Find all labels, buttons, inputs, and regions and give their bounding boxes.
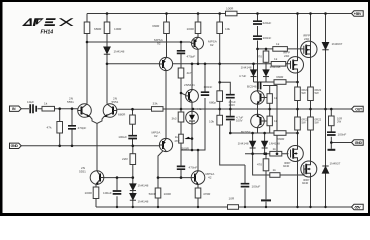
resistor 100R rail top inline bbox=[226, 11, 238, 16]
resistor 1k gate B bbox=[271, 62, 286, 67]
svg-text:470R: 470R bbox=[203, 192, 211, 196]
terminals bbox=[10, 11, 364, 210]
wire VAS1 column bbox=[165, 14, 168, 139]
wire 470p drop bbox=[71, 109, 73, 146]
resistor 470 upper bbox=[263, 51, 269, 62]
ground bars bbox=[261, 150, 335, 201]
wire mpsa42 collector bbox=[197, 150, 199, 171]
resistor 100R q2 load bbox=[104, 22, 110, 34]
terminal GND zobel bbox=[352, 140, 364, 145]
wire 47k drop bbox=[59, 109, 61, 146]
capacitors bbox=[30, 21, 335, 194]
svg-text:470pF: 470pF bbox=[78, 126, 87, 130]
wire mid rail cap column bbox=[257, 14, 259, 91]
resistor 0R22 A bbox=[308, 87, 314, 101]
svg-text:1k: 1k bbox=[44, 102, 48, 106]
svg-text:BC546: BC546 bbox=[247, 85, 257, 89]
svg-text:2N5401: 2N5401 bbox=[184, 83, 195, 87]
svg-text:GND: GND bbox=[11, 144, 19, 148]
svg-text:470pF: 470pF bbox=[187, 55, 196, 59]
svg-text:100V: 100V bbox=[229, 103, 236, 107]
wire input line bbox=[21, 108, 78, 110]
svg-text:1N4937: 1N4937 bbox=[330, 162, 341, 166]
wire mosfet B2 bbox=[297, 109, 299, 207]
wire y133 lower 330R bbox=[230, 132, 297, 134]
resistor 0R22 B bbox=[295, 87, 301, 101]
svg-text:1k: 1k bbox=[274, 57, 278, 61]
transistor VAS1 MPSA92 bbox=[159, 57, 172, 70]
svg-text:FH14: FH14 bbox=[41, 30, 54, 36]
resistor 100R vas2 bbox=[195, 22, 201, 34]
svg-text:9240: 9240 bbox=[283, 164, 290, 168]
mosfet IRFP240 B bbox=[287, 57, 303, 73]
logo APEX bbox=[22, 18, 74, 26]
wire diode top col bbox=[325, 14, 327, 110]
svg-text:1N4148: 1N4148 bbox=[138, 200, 149, 204]
svg-text:-55V: -55V bbox=[354, 206, 361, 210]
svg-text:100R: 100R bbox=[164, 192, 172, 196]
svg-text:10R: 10R bbox=[229, 197, 235, 201]
wire emitters Q1 Q2 bbox=[90, 116, 105, 171]
capacitor 470pF bbox=[68, 126, 76, 129]
diode 1N4937 bottom bbox=[322, 166, 328, 173]
svg-text:330R: 330R bbox=[276, 75, 284, 79]
svg-text:500R: 500R bbox=[182, 146, 190, 150]
svg-text:5W: 5W bbox=[302, 121, 307, 125]
svg-text:5551: 5551 bbox=[67, 100, 74, 104]
wire bottom -55V rail bbox=[96, 206, 352, 208]
diode 1N4148 lower b bbox=[262, 141, 268, 148]
svg-text:100nF: 100nF bbox=[204, 85, 213, 89]
svg-text:OUT: OUT bbox=[355, 108, 363, 112]
svg-text:33k: 33k bbox=[153, 102, 158, 106]
svg-text:680R: 680R bbox=[118, 113, 126, 117]
resistor 10R zobel bbox=[329, 116, 335, 126]
resistor 470 lower bbox=[263, 159, 269, 171]
wire fb divider column bbox=[132, 109, 134, 146]
transistor BC557 bbox=[251, 114, 265, 128]
svg-text:42: 42 bbox=[208, 176, 212, 180]
diodes bbox=[104, 42, 329, 200]
transistor Q3 2N5551 cs bbox=[90, 171, 104, 185]
svg-text:9240: 9240 bbox=[302, 181, 309, 185]
wire y63.8 right bbox=[173, 63, 291, 65]
resistor 3k3 bbox=[178, 112, 184, 122]
resistor 1k gate A2 bbox=[270, 173, 280, 178]
svg-text:3k3: 3k3 bbox=[172, 117, 177, 121]
svg-text:10k: 10k bbox=[209, 120, 214, 124]
terminal OUT bbox=[352, 106, 364, 111]
svg-text:100uF: 100uF bbox=[103, 191, 112, 195]
wire 10k col 219.7 bbox=[220, 14, 245, 208]
svg-text:1N4148: 1N4148 bbox=[269, 142, 280, 146]
svg-text:26V: 26V bbox=[175, 139, 180, 143]
svg-text:BC557: BC557 bbox=[241, 130, 251, 134]
svg-text:560R: 560R bbox=[149, 192, 157, 196]
resistor 10k top bbox=[217, 22, 223, 34]
wire 470 diode col 266 bbox=[265, 49, 267, 82]
capacitor cap5 q3 bbox=[113, 191, 122, 194]
svg-text:1N4148: 1N4148 bbox=[241, 66, 252, 70]
mosfet IRFP240 A bbox=[301, 41, 317, 57]
wire q3 emitter bbox=[95, 185, 97, 208]
wire mosfet A2 bbox=[310, 109, 312, 207]
diode 1N4148 upper a bbox=[251, 70, 257, 77]
led bias bbox=[186, 111, 199, 124]
wire y150 bias bottom bbox=[181, 149, 206, 151]
wire vbe out 277 bbox=[263, 86, 277, 154]
wire lower diodes bbox=[253, 133, 265, 154]
diode 1N4148 q2 clamp bbox=[104, 47, 110, 54]
resistor trimmer body bbox=[179, 134, 184, 143]
svg-text:100nF: 100nF bbox=[263, 36, 272, 40]
wire zobel bbox=[331, 109, 352, 149]
svg-text:1k: 1k bbox=[274, 96, 278, 100]
svg-text:1k: 1k bbox=[274, 119, 278, 123]
svg-text:10uF: 10uF bbox=[27, 100, 34, 104]
transistor BC546 bbox=[251, 91, 265, 105]
svg-text:5551: 5551 bbox=[79, 170, 86, 174]
wire gate A y48.9 bbox=[258, 48, 305, 50]
svg-text:2W: 2W bbox=[337, 120, 342, 124]
capacitor 4.7uF lower bbox=[226, 117, 235, 120]
resistor 33k fb bbox=[152, 107, 164, 112]
svg-text:5551: 5551 bbox=[112, 100, 119, 104]
capacitor bias mid 100n bbox=[177, 166, 185, 169]
transistor Q1 2N5551 bbox=[78, 104, 92, 118]
resistor 1k RA bbox=[267, 94, 272, 104]
wire mosfet A drain/source bbox=[310, 14, 312, 110]
wire cap5 drop bbox=[116, 178, 118, 207]
wire y82 source B bbox=[254, 81, 298, 83]
svg-text:1k: 1k bbox=[273, 147, 277, 151]
wire VAS base y42 bbox=[87, 42, 192, 43]
capacitor 100nF zobel bbox=[327, 132, 336, 135]
resistor 0R22 A2 bbox=[308, 117, 314, 130]
svg-text:1k: 1k bbox=[273, 168, 277, 172]
resistors vertical bbox=[57, 22, 334, 199]
svg-text:100R: 100R bbox=[187, 27, 195, 31]
resistor 0R22 B2 bbox=[295, 117, 301, 130]
wire mpsa92b emitter to 158 bbox=[158, 151, 163, 207]
transistor VAS2 MPSA92 bbox=[192, 37, 204, 49]
capacitor 10uF input bbox=[30, 104, 36, 113]
resistor 470R mpsa42 bbox=[195, 188, 201, 198]
svg-text:1N4148: 1N4148 bbox=[114, 50, 125, 54]
svg-text:1N4148: 1N4148 bbox=[238, 142, 249, 146]
mosfet IRFP9240 A2 bbox=[301, 161, 317, 177]
svg-text:5W: 5W bbox=[302, 91, 307, 95]
wire q3 base bbox=[104, 177, 133, 179]
wire 2n5401 base bbox=[181, 93, 186, 95]
capacitor 4.7uF horizontal vbe bbox=[258, 82, 261, 90]
resistor 10R rail bottom inline bbox=[228, 205, 239, 210]
terminal -55V bbox=[352, 204, 364, 209]
wire gate A2 y175 bbox=[253, 154, 306, 175]
wire bc base stubs bbox=[265, 98, 270, 122]
svg-text:220uF: 220uF bbox=[263, 21, 272, 25]
ground bar bias bbox=[261, 199, 271, 201]
wires main bbox=[21, 14, 352, 208]
resistor 330R lower bbox=[274, 131, 286, 136]
svg-text:330R: 330R bbox=[277, 137, 285, 141]
resistor 47k input bbox=[57, 122, 63, 134]
resistor 330R vas1 bbox=[164, 22, 170, 34]
wire RA RB column bbox=[269, 86, 271, 134]
wire 470 lower col bbox=[265, 154, 267, 207]
mosfet IRFP9240 B2 bbox=[287, 146, 303, 162]
wire 2n5401 collector bbox=[191, 64, 193, 90]
capacitor comp 181 bbox=[177, 51, 185, 54]
transistor MPSA42 bbox=[191, 171, 205, 185]
svg-text:240: 240 bbox=[284, 54, 289, 58]
wire out rail y109 bbox=[163, 108, 352, 110]
capacitor 4.7uF upper bbox=[226, 95, 235, 98]
svg-text:92: 92 bbox=[157, 42, 161, 46]
svg-text:330R: 330R bbox=[152, 24, 160, 28]
resistor 1k input bbox=[42, 106, 55, 111]
wire y177.6 mpsa42 base bbox=[158, 177, 191, 179]
trimmer arrow bbox=[186, 137, 190, 138]
resistors horizontal bbox=[42, 11, 287, 209]
diode 1N4148 upper b bbox=[263, 70, 269, 77]
svg-text:100R: 100R bbox=[114, 27, 122, 31]
wire Q2 collector column bbox=[106, 14, 108, 104]
transistors bbox=[78, 37, 265, 185]
resistor 1k gate A bbox=[273, 47, 288, 52]
wire cap2 stub bbox=[229, 109, 231, 133]
capacitor 100uF mid bottom bbox=[241, 184, 250, 187]
svg-text:1k: 1k bbox=[276, 42, 280, 46]
svg-text:100V: 100V bbox=[236, 119, 243, 123]
svg-text:100uF: 100uF bbox=[118, 135, 127, 139]
svg-text:1N4148: 1N4148 bbox=[138, 184, 149, 188]
wire diode bottom col bbox=[325, 109, 327, 207]
wire trimmer wiper bbox=[186, 138, 193, 140]
wire 22R diode column bbox=[132, 146, 134, 207]
wire Q1 collector column bbox=[86, 14, 88, 104]
transistor Q2 2N5551 bbox=[103, 104, 117, 118]
wire gate B2 y153.7 bbox=[245, 153, 289, 155]
wire cap1 stub bbox=[220, 82, 231, 109]
svg-text:GND: GND bbox=[355, 141, 363, 145]
resistor 680R fb bbox=[130, 115, 136, 124]
svg-text:100R: 100R bbox=[226, 7, 234, 11]
svg-text:1N4148: 1N4148 bbox=[270, 65, 281, 69]
svg-text:47k: 47k bbox=[47, 126, 52, 130]
terminal GND left bbox=[10, 143, 22, 148]
wire diode col 253.5 bbox=[253, 64, 255, 82]
svg-text:100R: 100R bbox=[85, 191, 93, 195]
resistor 10k mid bbox=[217, 91, 223, 102]
wire top +55V rail bbox=[87, 13, 352, 15]
svg-text:+55V: +55V bbox=[354, 12, 362, 16]
resistor 680R bbox=[84, 22, 90, 34]
svg-text:100uF: 100uF bbox=[252, 185, 261, 189]
wire bc546 pair column bbox=[257, 104, 259, 133]
svg-text:5W: 5W bbox=[315, 91, 320, 95]
wire mpsa42 emitter col bbox=[197, 185, 199, 207]
diode 1N4937 top bbox=[322, 42, 328, 49]
capacitor rail 220uF bbox=[253, 21, 262, 24]
svg-text:22R: 22R bbox=[122, 157, 128, 161]
svg-text:680p: 680p bbox=[209, 101, 216, 105]
resistor 560R bbox=[155, 188, 161, 198]
svg-text:470nF: 470nF bbox=[189, 166, 198, 170]
resistor 1k RB bbox=[267, 116, 272, 126]
transistor 2N5401 bbox=[186, 90, 199, 103]
transistor MPSA92 b bbox=[159, 138, 172, 151]
svg-text:240: 240 bbox=[304, 37, 309, 41]
svg-text:470: 470 bbox=[257, 163, 262, 167]
terminal IN bbox=[10, 106, 22, 111]
svg-text:92: 92 bbox=[210, 43, 214, 47]
wire mosfet B drain/source bbox=[297, 14, 299, 110]
wire Q2 base feedback node bbox=[117, 108, 152, 110]
resistor 10k mid b bbox=[217, 115, 223, 125]
svg-text:470: 470 bbox=[257, 55, 262, 59]
capacitor rail 100nF bbox=[253, 36, 262, 39]
terminal +55V bbox=[352, 11, 364, 16]
capacitor 100pF 205 bbox=[201, 92, 209, 95]
wire gnd line bbox=[21, 145, 160, 147]
mosfets bbox=[287, 41, 317, 177]
wire VAS2 column bbox=[197, 14, 199, 64]
svg-text:10k: 10k bbox=[225, 27, 230, 31]
resistor 330R upper bbox=[274, 80, 286, 85]
diode 1N4148 q3 a bbox=[130, 184, 136, 191]
capacitor 100uF fb bbox=[128, 136, 137, 139]
svg-text:680R: 680R bbox=[94, 27, 102, 31]
wire 205 column bbox=[204, 64, 206, 150]
wire y63.8 left bbox=[107, 63, 160, 65]
diode 1N4148 lower a bbox=[250, 141, 256, 148]
svg-text:4.7uF: 4.7uF bbox=[239, 74, 246, 78]
wire comp column 181 bbox=[180, 42, 182, 178]
svg-text:HL: HL bbox=[198, 107, 202, 111]
resistor 4k7 comp bbox=[178, 68, 184, 78]
ground bar zobel bbox=[328, 149, 336, 151]
svg-text:5W: 5W bbox=[315, 121, 320, 125]
svg-text:100nF: 100nF bbox=[338, 133, 347, 137]
svg-text:4k7: 4k7 bbox=[187, 71, 192, 75]
svg-text:92: 92 bbox=[154, 134, 158, 138]
wire led column bbox=[191, 102, 193, 150]
diode 1N4148 q3 b bbox=[130, 193, 136, 200]
svg-text:1N4937: 1N4937 bbox=[332, 42, 343, 46]
resistor 100R q3 emitter bbox=[93, 187, 99, 199]
resistor 22R bbox=[130, 154, 136, 165]
resistor 1k gate B2 bbox=[270, 151, 282, 156]
